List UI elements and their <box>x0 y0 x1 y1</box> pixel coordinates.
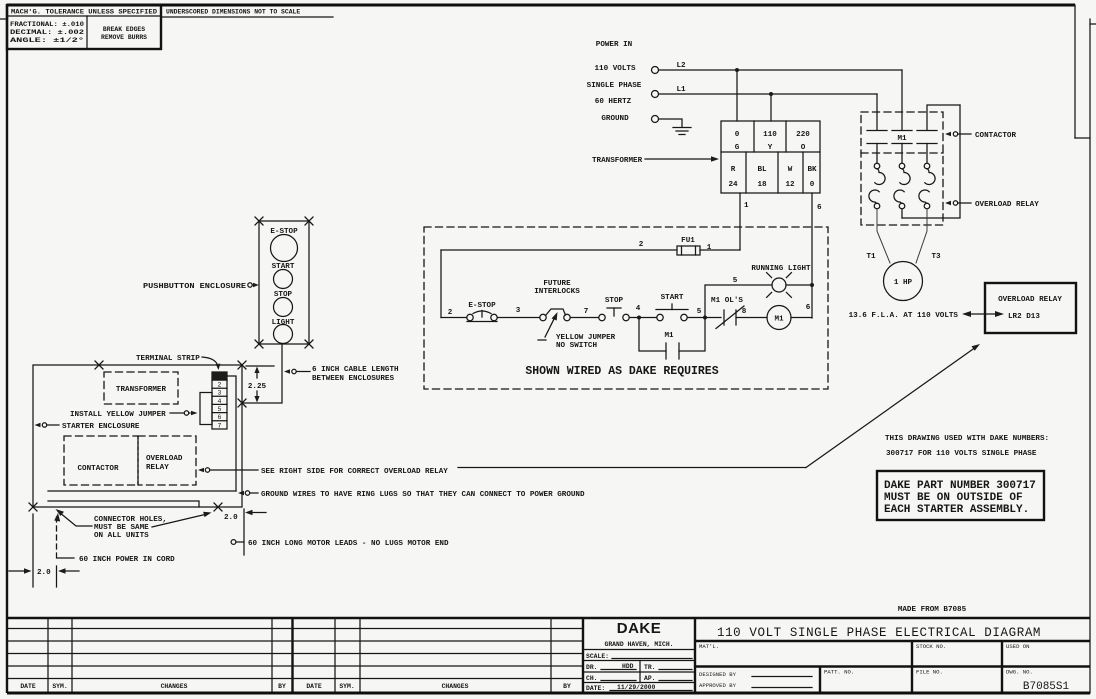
svg-text:INTERLOCKS: INTERLOCKS <box>534 288 580 296</box>
starter enclosure bottom-left hole mark <box>29 503 37 511</box>
svg-text:6 INCH CABLE LENGTH: 6 INCH CABLE LENGTH <box>312 366 399 374</box>
svg-text:OVERLOAD RELAY: OVERLOAD RELAY <box>975 201 1039 209</box>
title cell bottom <box>695 640 1090 642</box>
fuse FU1 <box>677 246 700 255</box>
dim 2.0 right arrow <box>245 510 266 515</box>
wire L2 horizontal <box>659 69 903 71</box>
svg-text:0: 0 <box>735 131 740 139</box>
svg-text:24: 24 <box>728 181 738 189</box>
svg-text:M1: M1 <box>664 332 674 340</box>
svg-text:DR.: DR. <box>586 664 598 671</box>
underscored strip rule <box>161 16 333 18</box>
dim 2.0 left arrow out <box>58 568 79 573</box>
cable pushbutton to starter <box>242 344 282 403</box>
M1 overload NC contact <box>716 306 744 329</box>
transformer T1 box frame <box>721 121 820 193</box>
svg-text:6: 6 <box>218 414 222 421</box>
arrow to overload spec box <box>806 344 980 468</box>
svg-text:R: R <box>731 166 736 174</box>
terminal L1 <box>652 91 659 98</box>
svg-text:DECIMAL: ±.002: DECIMAL: ±.002 <box>10 29 84 36</box>
svg-text:START: START <box>661 294 684 302</box>
svg-text:110: 110 <box>763 131 777 139</box>
wire pole2 bottom to wrap <box>901 209 903 218</box>
tr underline <box>659 669 692 671</box>
ch/ap divider <box>639 672 641 683</box>
wire rung to e-stop <box>441 317 467 319</box>
wire coil to bus6 <box>791 317 812 319</box>
dr underline <box>601 669 636 671</box>
contactor M1 pole2 contact <box>892 131 912 144</box>
node lamp bus6 <box>810 283 814 287</box>
svg-text:USED ON: USED ON <box>1006 643 1030 650</box>
pb light lens <box>274 325 293 344</box>
transformer bottom cell divider 1 <box>745 152 747 193</box>
dake block left border <box>582 618 584 692</box>
dim 2.25 ref mark top <box>238 361 246 369</box>
wire e-stop to interlocks <box>498 317 540 319</box>
svg-text:CONTACTOR: CONTACTOR <box>975 132 1016 140</box>
dim 2.25 upper arrow <box>254 367 259 379</box>
svg-text:FUTURE: FUTURE <box>543 280 571 288</box>
svg-text:ON ALL UNITS: ON ALL UNITS <box>94 532 149 540</box>
svg-text:BK: BK <box>807 166 817 174</box>
svg-text:APPROVED BY: APPROVED BY <box>699 682 737 689</box>
wire ground <box>659 119 683 127</box>
svg-text:MUST BE SAME: MUST BE SAME <box>94 524 149 532</box>
svg-text:3: 3 <box>516 307 521 315</box>
svg-text:PATT. NO.: PATT. NO. <box>824 669 854 676</box>
svg-text:BETWEEN ENCLOSURES: BETWEEN ENCLOSURES <box>312 375 394 383</box>
svg-text:THIS DRAWING USED WITH DAKE NU: THIS DRAWING USED WITH DAKE NUMBERS: <box>885 435 1049 443</box>
top-right notch vertical <box>1074 5 1076 138</box>
svg-text:2.0: 2.0 <box>37 569 51 577</box>
contactor M1 pole1 contact <box>867 131 887 144</box>
dim 2.0 left ext line B <box>56 566 58 587</box>
node 5 <box>703 316 707 320</box>
e-stop pushbutton <box>467 311 497 322</box>
svg-text:CHANGES: CHANGES <box>442 683 469 690</box>
svg-text:110 VOLTS: 110 VOLTS <box>594 65 635 73</box>
stock no divider <box>911 641 913 692</box>
yellow jumper bracket <box>200 393 212 425</box>
motor leads note leader <box>231 540 244 545</box>
starter enclosure top hole mark <box>95 361 103 369</box>
svg-text:RELAY: RELAY <box>146 464 169 472</box>
svg-text:SEE RIGHT SIDE FOR CORRECT OVE: SEE RIGHT SIDE FOR CORRECT OVERLOAD RELA… <box>261 468 448 476</box>
wire interlocks to stop <box>571 317 599 319</box>
terminal strip body <box>212 372 227 429</box>
tolerance box frame <box>7 5 161 49</box>
svg-text:W: W <box>788 166 793 174</box>
yellow jumper arrow <box>538 312 558 340</box>
connector holes leader left <box>56 509 93 526</box>
dake part number box <box>877 471 1044 520</box>
FLA double arrow <box>962 311 1004 317</box>
overload relay label leader <box>945 201 971 205</box>
svg-text:REMOVE BURRS: REMOVE BURRS <box>101 34 147 41</box>
node 4 <box>637 316 641 320</box>
svg-text:MACH'G. TOLERANCE UNLESS SPECI: MACH'G. TOLERANCE UNLESS SPECIFIED <box>11 9 157 16</box>
ground wires note leader <box>238 491 258 495</box>
gnd wire from strip <box>227 376 236 491</box>
dake block line4 <box>583 682 695 684</box>
svg-text:3: 3 <box>218 390 222 397</box>
contactor M1 pole3 contact <box>917 131 937 144</box>
svg-text:MAT'L.: MAT'L. <box>699 643 719 650</box>
svg-text:DAKE: DAKE <box>617 620 662 637</box>
svg-text:CONTACTOR: CONTACTOR <box>77 465 118 473</box>
stop pushbutton <box>599 308 629 321</box>
svg-text:60 HERTZ: 60 HERTZ <box>595 98 632 106</box>
svg-text:O: O <box>801 144 806 152</box>
terminal L2 <box>652 67 659 74</box>
dr/tr divider <box>639 661 641 673</box>
wire tap0 to L2 <box>736 70 738 121</box>
cable note leader <box>284 369 310 373</box>
pushbutton enclosure leader <box>248 283 259 287</box>
wire wrap-around right <box>902 105 960 218</box>
patt no divider <box>819 667 821 693</box>
M1 aux contact branch <box>639 318 705 360</box>
revision table2 headers <box>306 683 571 690</box>
transformer bottom cell divider 3 <box>802 152 804 193</box>
svg-text:60 INCH POWER IN CORD: 60 INCH POWER IN CORD <box>79 556 175 564</box>
sheet bottom border <box>7 692 1090 695</box>
running light lamp <box>767 273 792 298</box>
dake block line3 <box>583 671 695 673</box>
transformer primary/secondary divider <box>721 151 820 153</box>
svg-text:DATE: DATE <box>306 683 322 690</box>
svg-text:60 INCH LONG MOTOR LEADS - NO: 60 INCH LONG MOTOR LEADS - NO LUGS MOTOR… <box>248 540 449 548</box>
transformer leader arrowhead <box>711 156 719 162</box>
motor 1HP <box>884 262 923 301</box>
sheet top border <box>7 4 1075 7</box>
contactor dashed enclosure <box>861 112 943 225</box>
svg-text:M1 OL'S: M1 OL'S <box>711 297 743 305</box>
svg-text:STOP: STOP <box>605 297 624 305</box>
svg-text:BREAK EDGES: BREAK EDGES <box>103 26 145 33</box>
ground bus wire upper <box>48 490 236 492</box>
svg-text:SYM.: SYM. <box>339 683 354 690</box>
node L2 transformer tap <box>735 68 739 72</box>
designed by underline <box>752 676 812 678</box>
wire 2 drop to rung <box>440 250 442 318</box>
svg-text:T1: T1 <box>866 253 876 261</box>
install yellow jumper leader <box>170 411 198 415</box>
svg-text:1: 1 <box>744 202 749 210</box>
svg-text:POWER IN: POWER IN <box>596 41 633 49</box>
transformer bottom cell divider 2 <box>777 152 779 193</box>
control circuit dashed box <box>424 227 828 389</box>
svg-text:SHOWN WIRED AS DAKE REQUIRES: SHOWN WIRED AS DAKE REQUIRES <box>525 365 718 378</box>
svg-text:FILE NO.: FILE NO. <box>916 669 943 676</box>
ch underline <box>601 680 636 682</box>
revision table 2 frame <box>335 618 551 692</box>
svg-text:8: 8 <box>742 308 747 316</box>
svg-text:SINGLE PHASE: SINGLE PHASE <box>587 82 642 90</box>
wire T1 lead <box>877 209 890 263</box>
svg-text:OVERLOAD: OVERLOAD <box>146 455 183 463</box>
overload relay spec box <box>985 283 1076 333</box>
svg-text:13.6 F.L.A. AT 110 VOLTS: 13.6 F.L.A. AT 110 VOLTS <box>849 312 959 320</box>
title block top border <box>7 617 1090 619</box>
svg-text:DESIGNED BY: DESIGNED BY <box>699 671 737 678</box>
svg-text:L2: L2 <box>676 62 686 70</box>
see right side long line <box>458 467 806 469</box>
svg-text:2: 2 <box>448 309 453 317</box>
transformer top cell divider 2 <box>785 121 787 152</box>
svg-text:ANGLE: ±1/2°: ANGLE: ±1/2° <box>10 36 84 44</box>
svg-text:BL: BL <box>757 166 767 174</box>
overload heater leg3 <box>919 144 935 209</box>
tolerance box divider <box>86 16 88 49</box>
dim 2.25 ref line <box>246 365 274 367</box>
dake block right border <box>694 618 696 692</box>
svg-text:2: 2 <box>218 382 222 389</box>
svg-text:MUST BE ON OUTSIDE OF: MUST BE ON OUTSIDE OF <box>884 492 1023 504</box>
ap underline <box>659 680 692 682</box>
pb stop button <box>274 298 293 317</box>
svg-text:6: 6 <box>806 304 811 312</box>
starter enclosure leader <box>35 423 60 427</box>
svg-text:FU1: FU1 <box>681 237 695 245</box>
svg-text:NO SWITCH: NO SWITCH <box>556 342 597 350</box>
svg-text:GROUND: GROUND <box>601 115 629 123</box>
power cord dashed leader <box>54 513 60 553</box>
tolerance header underline <box>7 15 161 17</box>
wire fuse to transformer tap1 <box>700 249 740 251</box>
svg-text:FRACTIONAL: ±.010: FRACTIONAL: ±.010 <box>10 21 84 28</box>
ground symbol <box>673 128 691 135</box>
svg-text:STOCK NO.: STOCK NO. <box>916 643 946 650</box>
svg-text:SCALE:: SCALE: <box>586 653 609 660</box>
svg-text:CHANGES: CHANGES <box>161 683 188 690</box>
svg-text:EACH STARTER ASSEMBLY.: EACH STARTER ASSEMBLY. <box>884 504 1029 516</box>
transformer top cell divider 1 <box>753 121 755 152</box>
wire secondary 1 <box>739 193 741 250</box>
dim 2.0 right ext line <box>243 509 245 555</box>
approved by underline <box>752 687 812 689</box>
transformer leader line <box>645 158 713 160</box>
svg-text:300717 FOR 110 VOLTS SINGLE PH: 300717 FOR 110 VOLTS SINGLE PHASE <box>886 450 1037 458</box>
svg-text:110 VOLT SINGLE PHASE ELECTRIC: 110 VOLT SINGLE PHASE ELECTRICAL DIAGRAM <box>717 626 1041 640</box>
svg-text:M1: M1 <box>897 135 907 143</box>
svg-text:5: 5 <box>218 406 222 413</box>
svg-text:5: 5 <box>733 277 738 285</box>
svg-text:L1: L1 <box>676 86 686 94</box>
terminal strip cell lines <box>212 380 227 421</box>
svg-text:E-STOP: E-STOP <box>468 302 496 310</box>
dake block line2 <box>583 660 695 662</box>
svg-text:OVERLOAD RELAY: OVERLOAD RELAY <box>998 296 1062 304</box>
transformer dashed box <box>104 372 178 404</box>
start pushbutton <box>656 304 688 321</box>
svg-text:LIGHT: LIGHT <box>272 319 295 327</box>
svg-text:DATE: DATE <box>20 683 36 690</box>
contactor label leader <box>945 132 971 136</box>
svg-text:6: 6 <box>817 204 822 212</box>
svg-text:0: 0 <box>810 181 815 189</box>
used on divider <box>1001 641 1003 692</box>
svg-text:TERMINAL STRIP: TERMINAL STRIP <box>136 355 200 363</box>
contactor dashed box <box>64 436 138 485</box>
wire stop to node4 <box>630 317 657 319</box>
svg-text:1: 1 <box>707 244 712 252</box>
sheet right border <box>1089 19 1091 693</box>
svg-text:LR2 D13: LR2 D13 <box>1008 313 1040 321</box>
dim 2.25 ref mark bottom <box>238 399 246 407</box>
pb start button <box>274 270 293 289</box>
wire fuse line left <box>441 249 677 251</box>
svg-text:DATE:: DATE: <box>586 685 605 692</box>
top-right notch horizontal <box>1075 137 1090 139</box>
svg-text:AP.: AP. <box>644 675 656 682</box>
svg-text:TRANSFORMER: TRANSFORMER <box>116 386 167 394</box>
wire secondary 6 <box>811 193 813 318</box>
ground bus wire lower <box>48 501 199 507</box>
starter enclosure bottom-right hole mark <box>214 503 222 511</box>
svg-text:MADE FROM B7085: MADE FROM B7085 <box>898 606 967 614</box>
wire contact to coil <box>736 317 767 319</box>
pushbutton enclosure corner marks <box>255 217 313 348</box>
svg-text:BY: BY <box>278 683 286 690</box>
wire L2 drop to contactor <box>901 70 903 130</box>
svg-text:CONNECTOR HOLES,: CONNECTOR HOLES, <box>94 516 167 524</box>
coil M1 <box>767 306 791 330</box>
svg-text:2: 2 <box>639 241 644 249</box>
pushbutton enclosure box <box>259 221 309 344</box>
running light branch wire <box>705 285 772 318</box>
svg-text:SYM.: SYM. <box>52 683 67 690</box>
power cord note elbow <box>57 553 75 558</box>
wire L1 drop to contactor <box>876 94 878 130</box>
svg-text:M1: M1 <box>774 316 784 324</box>
wire lamp to bus6 <box>786 284 812 286</box>
svg-text:2.25: 2.25 <box>248 383 267 391</box>
contactor/overload dashed separator <box>861 152 943 154</box>
future interlocks switch <box>540 309 570 321</box>
svg-text:4: 4 <box>636 305 641 313</box>
wire T3 lead <box>916 209 927 263</box>
svg-text:PUSHBUTTON ENCLOSURE: PUSHBUTTON ENCLOSURE <box>143 283 246 291</box>
dake block line1 <box>583 649 695 651</box>
svg-text:YELLOW JUMPER: YELLOW JUMPER <box>556 334 616 342</box>
svg-text:RUNNING LIGHT: RUNNING LIGHT <box>751 265 811 273</box>
svg-text:CH.: CH. <box>586 675 598 682</box>
scale underline <box>612 658 692 660</box>
terminal strip gnd cell <box>212 372 227 380</box>
svg-text:18: 18 <box>757 181 767 189</box>
svg-text:7: 7 <box>218 422 222 429</box>
svg-text:Y: Y <box>768 144 773 152</box>
svg-text:T3: T3 <box>931 253 941 261</box>
svg-text:5: 5 <box>697 308 702 316</box>
date underline <box>610 690 692 692</box>
terminal ground <box>652 116 659 123</box>
wire L1 horizontal <box>659 93 878 95</box>
revision table rows <box>7 629 583 679</box>
terminal strip labels <box>218 382 222 430</box>
svg-text:G: G <box>735 144 740 152</box>
wire tap110 to L1 <box>770 94 772 121</box>
wire pole3 top riser <box>927 105 960 130</box>
svg-text:B7085S1: B7085S1 <box>1023 681 1070 693</box>
svg-text:UNDERSCORED DIMENSIONS NOT TO: UNDERSCORED DIMENSIONS NOT TO SCALE <box>166 9 300 16</box>
node L1 transformer tap <box>769 92 773 96</box>
see right side note leader <box>198 468 258 472</box>
dim 2.25 lower arrow <box>254 391 259 403</box>
svg-text:TRANSFORMER: TRANSFORMER <box>592 157 643 165</box>
terminal strip leader <box>202 357 220 370</box>
revision table divider <box>291 618 293 692</box>
matl/designed divider <box>695 665 1090 667</box>
overload heater leg1 <box>869 144 885 209</box>
overload heater leg2 <box>894 144 910 209</box>
svg-text:DAKE PART NUMBER 300717: DAKE PART NUMBER 300717 <box>884 480 1036 492</box>
revision table1 headers <box>20 683 286 690</box>
pb e-stop button <box>271 235 298 262</box>
revision table 1 frame <box>48 618 272 692</box>
svg-text:GRAND HAVEN, MICH.: GRAND HAVEN, MICH. <box>604 641 673 648</box>
svg-text:2.0: 2.0 <box>224 514 238 522</box>
left edge tick <box>0 18 7 20</box>
svg-text:TR.: TR. <box>644 664 656 671</box>
svg-text:INSTALL YELLOW JUMPER: INSTALL YELLOW JUMPER <box>70 411 166 419</box>
connector holes leader right <box>152 512 212 527</box>
starter enclosure box <box>33 365 242 507</box>
svg-text:STARTER ENCLOSURE: STARTER ENCLOSURE <box>62 423 140 431</box>
svg-text:4: 4 <box>218 398 222 405</box>
overload relay dashed box <box>138 436 196 485</box>
dim 2.0 left ext line A <box>32 514 34 587</box>
right edge tick <box>1090 23 1096 25</box>
svg-text:220: 220 <box>796 131 810 139</box>
svg-text:BY: BY <box>563 683 571 690</box>
wire start to node5 <box>688 317 722 319</box>
svg-text:GROUND WIRES TO HAVE RING LUGS: GROUND WIRES TO HAVE RING LUGS SO THAT T… <box>261 491 585 499</box>
dim 2.0 left arrow in <box>9 568 32 573</box>
svg-text:1 HP: 1 HP <box>894 279 913 287</box>
svg-text:12: 12 <box>785 181 795 189</box>
svg-text:7: 7 <box>584 308 589 316</box>
svg-text:DWG. NO.: DWG. NO. <box>1006 669 1033 676</box>
sheet left border <box>6 4 8 693</box>
